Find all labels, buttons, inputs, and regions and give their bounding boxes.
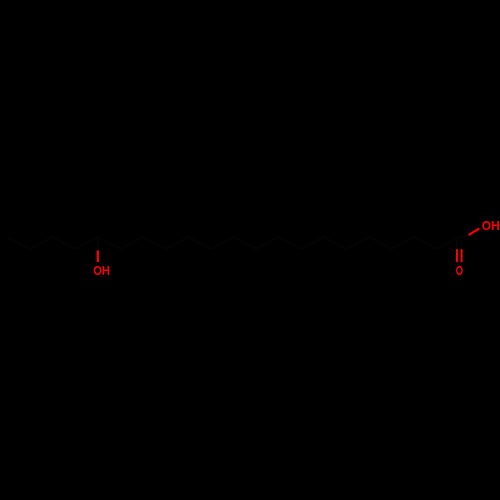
C-OH acid bond carbon half (dark): [459, 235, 468, 237]
C=O double bond oxygen halves (red): [456, 249, 458, 262]
svg-text:OH: OH: [93, 263, 110, 278]
svg-text:OH: OH: [482, 218, 500, 233]
carbon chain zigzag wire: [7, 237, 459, 249]
C=O double bond carbon halves (dark): [456, 237, 458, 249]
C-O bond left OH, carbon half (dark): [97, 237, 99, 250]
C-O bond left OH, oxygen half (red): [97, 250, 99, 262]
svg-text:O: O: [456, 263, 463, 278]
C-OH acid bond oxygen half (red): [469, 228, 480, 235]
